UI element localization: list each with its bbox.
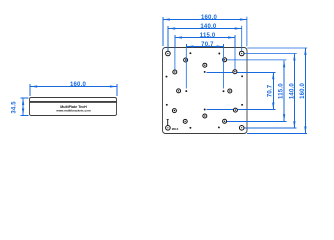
hole corner bottom-left: [166, 126, 171, 131]
hole dot right-edge lower: [241, 104, 243, 106]
hole dot top-right: [218, 53, 220, 55]
svg-text:www.multibrackets.com: www.multibrackets.com: [55, 108, 91, 112]
hole ring bottom-center: [203, 114, 207, 118]
hole ring upper-right inner: [223, 58, 227, 62]
hole dot bottom-left: [189, 127, 191, 129]
hole dot center-right: [223, 90, 225, 92]
hole dot upper-center: [204, 71, 206, 73]
hole dot top-left: [189, 52, 191, 54]
svg-text:115.0: 115.0: [200, 33, 216, 39]
svg-text:140.0: 140.0: [289, 83, 295, 99]
svg-text:70.7: 70.7: [201, 42, 214, 48]
svg-text:140.0: 140.0: [200, 24, 216, 30]
extension line 70.7 top right (over holes): [223, 48, 225, 89]
hole dot center-left: [185, 90, 187, 92]
extension line 70.7 top left (over holes): [185, 48, 187, 89]
dimension 140.0 right: [244, 54, 297, 129]
svg-text:Ø8.0: Ø8.0: [172, 127, 179, 131]
svg-text:160.0: 160.0: [201, 15, 217, 21]
dimension 140.0 top: [168, 24, 242, 52]
hole ring lower-left inner: [183, 119, 187, 123]
front view plate outline: [163, 48, 248, 134]
dimension 160.0 top: [163, 15, 247, 46]
hole dot left-edge upper: [166, 76, 168, 78]
hole dot bottom-right: [218, 126, 220, 128]
leader line bottom-left hole: [167, 119, 169, 125]
left view brand text: [55, 105, 91, 112]
hole dot lower-center: [204, 109, 206, 111]
dimension 115.0 top: [175, 33, 235, 70]
dimension 115.0 right: [227, 60, 287, 121]
dimension 70.7 top: [186, 42, 223, 48]
dimension 160.0 right: [247, 48, 307, 133]
dimension 34.5 left view: [12, 98, 29, 115]
hole ring top-center: [203, 63, 207, 67]
hole ring left upper: [173, 70, 177, 74]
svg-text:115.0: 115.0: [279, 83, 285, 99]
svg-text:160.0: 160.0: [70, 82, 86, 88]
hole ring lower-right inner: [223, 119, 227, 123]
hole corner top-right: [239, 51, 244, 56]
hole ring upper-left inner: [184, 58, 188, 62]
svg-text:160.0: 160.0: [300, 82, 306, 98]
hole ring mid-left: [177, 89, 181, 93]
hole corner bottom-right: [239, 126, 244, 131]
hole corner top-left: [166, 51, 171, 56]
hole ring right upper: [233, 70, 237, 74]
hole ring mid-right: [228, 89, 232, 93]
hole ring right lower: [233, 108, 237, 112]
left view plate side outline: [30, 98, 117, 116]
hole dot left-edge lower: [166, 104, 168, 106]
hole ring left lower: [172, 109, 176, 113]
dimension 70.7 right: [207, 72, 276, 109]
svg-text:34.5: 34.5: [12, 101, 18, 114]
svg-text:70.7: 70.7: [268, 84, 274, 97]
dimension 160.0 left view: [30, 82, 117, 96]
hole dot right-edge upper: [241, 75, 243, 77]
